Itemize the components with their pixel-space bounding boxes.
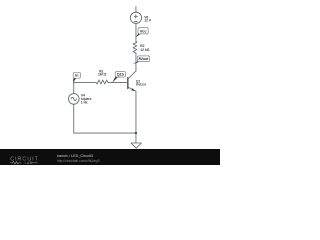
label V4 value <box>81 94 92 105</box>
svg-text:LAB: LAB <box>25 161 33 165</box>
wire base <box>74 82 96 84</box>
transistor Q1 base bar <box>127 78 129 89</box>
svg-text:12 kΩ: 12 kΩ <box>140 48 149 52</box>
node tag R2out <box>133 56 150 64</box>
transistor Q1 collector lead <box>128 71 136 79</box>
wire R1 to base <box>108 82 128 84</box>
resistor R2 <box>133 41 137 53</box>
wire emitter to ground <box>135 91 137 143</box>
ground symbol <box>131 143 142 148</box>
wire V6 to R2 <box>135 23 137 41</box>
junction dot at emitter/bottom wire <box>135 132 137 134</box>
svg-text:1 Hz: 1 Hz <box>81 101 88 105</box>
schematic background <box>0 0 220 165</box>
resistor R1 <box>96 80 108 84</box>
label Q1 value <box>136 79 147 86</box>
svg-text:nanutv / LED_Circuit3: nanutv / LED_Circuit3 <box>57 154 93 158</box>
footer bar <box>0 149 220 165</box>
svg-text:http://circuitlab.com/c9k2my3: http://circuitlab.com/c9k2my3 <box>57 159 100 163</box>
wire R2 to collector <box>135 53 137 71</box>
label R2 value <box>140 44 149 52</box>
wire stub above V6 <box>135 7 137 13</box>
svg-text:Q1b: Q1b <box>117 73 125 77</box>
source V4 <box>69 94 80 105</box>
svg-text:R2out: R2out <box>139 57 150 61</box>
wire V4 top <box>73 83 75 94</box>
wire bottom horizontal <box>74 132 136 134</box>
node tag in <box>73 72 81 83</box>
svg-text:Vcc: Vcc <box>140 30 147 34</box>
node tag Vcc <box>136 28 149 38</box>
transistor Q1 emitter arrow <box>131 88 135 91</box>
transistor Q1 emitter lead <box>128 87 136 91</box>
voltage source V6 <box>130 12 141 23</box>
label R1 value <box>98 69 106 76</box>
node tag Q1b <box>112 72 126 83</box>
svg-text:12 V: 12 V <box>144 19 152 23</box>
svg-text:2N2222: 2N2222 <box>136 83 147 87</box>
label V6 value <box>144 15 152 22</box>
wire V4 bottom <box>73 104 75 133</box>
svg-text:1M Ω: 1M Ω <box>98 73 106 77</box>
CircuitLab logo <box>10 156 39 165</box>
